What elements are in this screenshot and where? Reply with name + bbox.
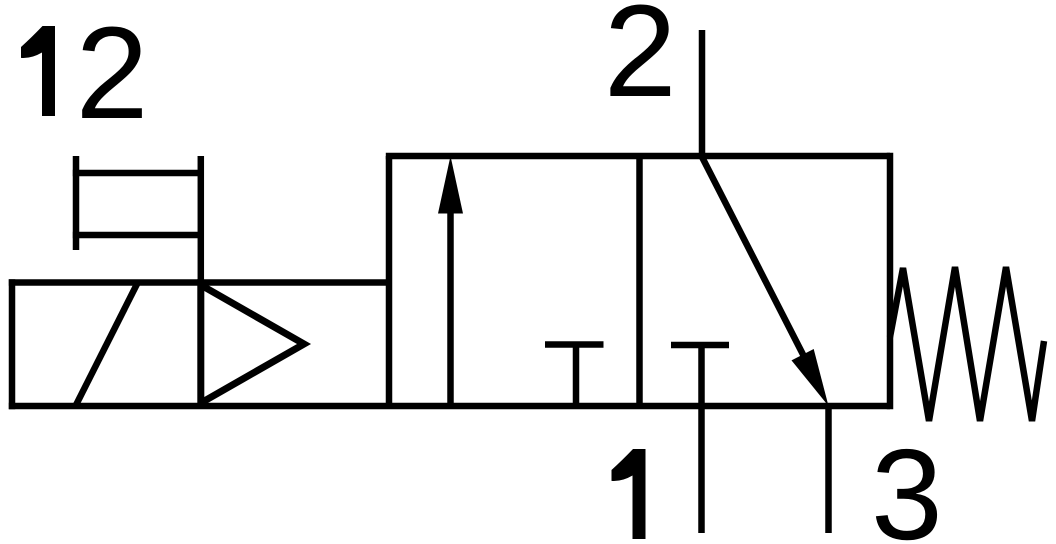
blocked port T (actuated chamber) stem — [573, 345, 580, 407]
valve body right edge — [887, 153, 894, 410]
return spring — [890, 267, 1044, 421]
pilot bracket top rung — [73, 170, 202, 177]
pilot port label 12 bracket: left tick — [73, 156, 80, 250]
flow arrow head (up) — [438, 156, 463, 214]
blocked port T (actuated chamber) bar — [545, 341, 604, 348]
exhaust diagonal 2 to 3 — [702, 157, 815, 378]
port 1 line with T stem — [698, 345, 705, 533]
label 12 digit 1 — [21, 26, 55, 116]
bottom edge (pilot + valve body shared) — [9, 403, 890, 410]
pilot bracket right vertical / solenoid-pilot divider — [198, 156, 205, 406]
pilot bracket bottom rung — [73, 232, 202, 239]
valve chamber divider — [636, 156, 643, 406]
valve body left edge / pilot box right edge — [386, 156, 393, 407]
svg-text:2: 2 — [76, 0, 149, 146]
svg-text:3: 3 — [871, 423, 943, 544]
blocked port 1 T bar (rest chamber) — [671, 342, 729, 349]
svg-text:2: 2 — [604, 0, 677, 124]
solenoid diagonal stroke — [76, 284, 138, 406]
label 1 — [612, 449, 646, 539]
exhaust arrow head (down to port 3) — [792, 349, 829, 406]
port 3 line — [825, 406, 832, 533]
solenoid box top edge — [9, 279, 389, 286]
port 2 line — [699, 30, 706, 156]
solenoid box left edge — [9, 279, 16, 409]
valve body top edge — [386, 153, 890, 160]
flow arrow stem (actuated chamber, 1 to 2) — [447, 208, 454, 406]
pilot amplifier triangle — [201, 285, 304, 403]
